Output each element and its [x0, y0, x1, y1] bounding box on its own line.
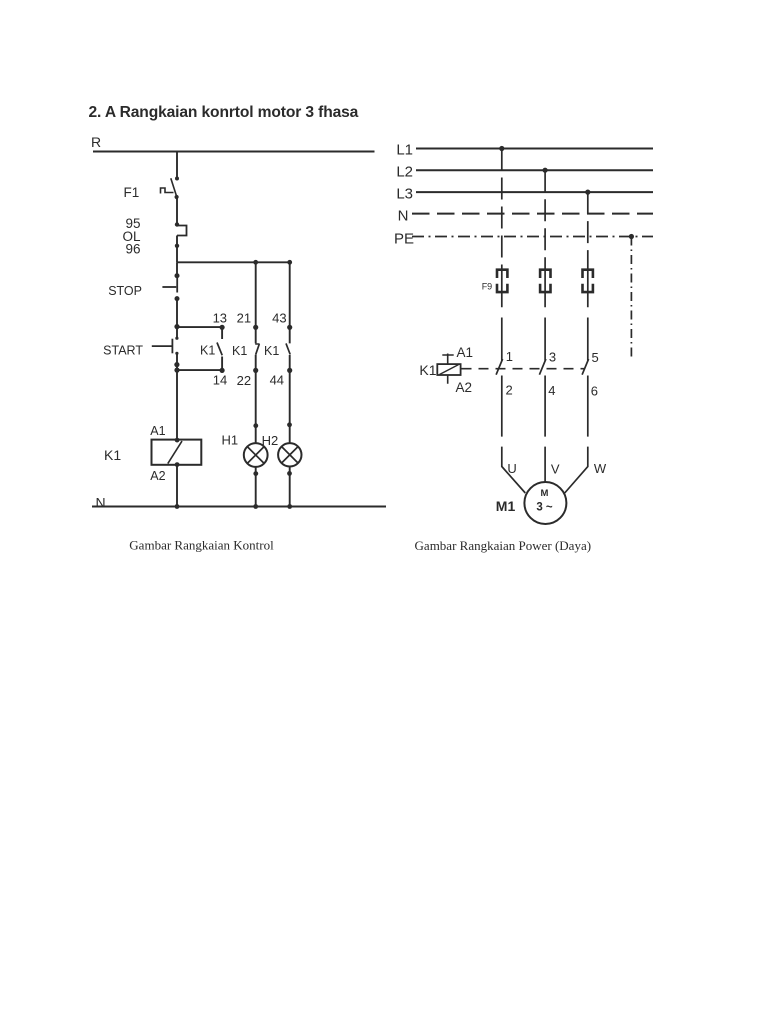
- svg-text:4: 4: [548, 383, 555, 398]
- svg-text:L2: L2: [396, 164, 413, 181]
- svg-text:2. A Rangkaian konrtol motor 3: 2. A Rangkaian konrtol motor 3 fhasa: [89, 104, 359, 121]
- svg-text:22: 22: [237, 373, 251, 388]
- svg-text:H2: H2: [262, 433, 279, 448]
- svg-text:H1: H1: [222, 432, 239, 447]
- svg-text:1: 1: [506, 349, 513, 364]
- svg-text:U: U: [507, 461, 516, 476]
- svg-text:STOP: STOP: [108, 284, 142, 298]
- svg-text:V: V: [551, 462, 560, 477]
- svg-text:Gambar Rangkaian Kontrol: Gambar Rangkaian Kontrol: [129, 538, 274, 553]
- svg-text:K1: K1: [232, 344, 247, 358]
- svg-text:N: N: [398, 208, 409, 225]
- svg-text:A2: A2: [150, 469, 165, 483]
- svg-text:K1: K1: [264, 344, 279, 358]
- svg-text:K1: K1: [104, 447, 121, 463]
- svg-text:21: 21: [237, 311, 251, 326]
- svg-text:F9: F9: [482, 282, 493, 292]
- svg-text:44: 44: [270, 373, 284, 388]
- svg-text:K1: K1: [200, 344, 215, 358]
- svg-text:43: 43: [272, 311, 286, 326]
- svg-text:PE: PE: [394, 231, 414, 248]
- svg-text:N: N: [96, 495, 106, 511]
- svg-text:5: 5: [592, 350, 599, 365]
- svg-text:96: 96: [125, 241, 140, 256]
- svg-text:6: 6: [591, 384, 598, 399]
- svg-text:K1: K1: [419, 362, 436, 378]
- svg-text:L1: L1: [396, 142, 413, 159]
- svg-text:A2: A2: [456, 380, 473, 395]
- svg-text:START: START: [103, 344, 143, 358]
- svg-text:2: 2: [506, 383, 513, 398]
- svg-text:3 ~: 3 ~: [536, 502, 553, 514]
- svg-text:13: 13: [213, 311, 227, 326]
- svg-text:14: 14: [213, 373, 227, 388]
- svg-text:M: M: [541, 488, 549, 499]
- svg-text:3: 3: [549, 350, 556, 365]
- svg-text:Gambar Rangkaian Power (Daya): Gambar Rangkaian Power (Daya): [415, 538, 592, 553]
- svg-text:M1: M1: [496, 498, 516, 514]
- svg-text:F1: F1: [124, 185, 140, 200]
- svg-text:R: R: [91, 134, 101, 150]
- svg-text:A1: A1: [457, 345, 474, 360]
- svg-text:A1: A1: [150, 424, 165, 438]
- svg-text:L3: L3: [396, 186, 413, 203]
- svg-text:W: W: [594, 461, 607, 476]
